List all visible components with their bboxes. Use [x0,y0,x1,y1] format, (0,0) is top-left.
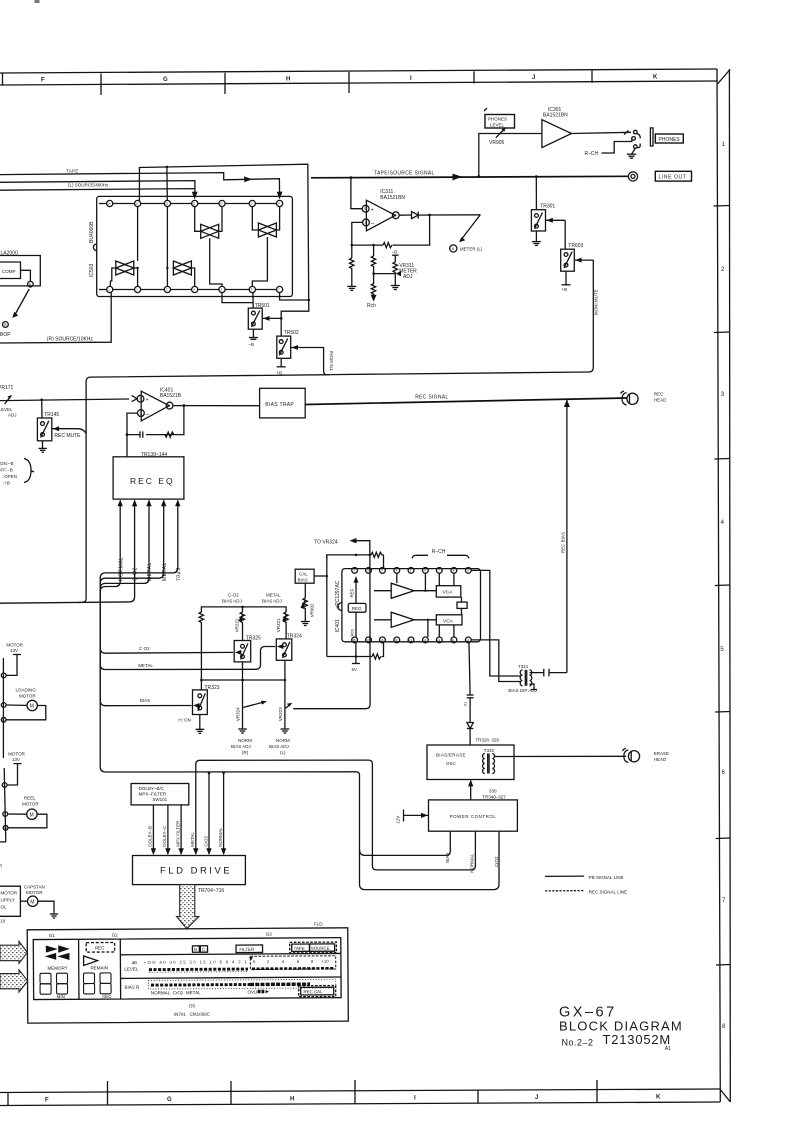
svg-text:CrO2: CrO2 [494,856,499,867]
svg-text:I: I [410,76,412,82]
svg-text:REC SIGNAL: REC SIGNAL [415,395,448,401]
transistor switch TR145 REC MUTE [37,412,86,441]
svg-text:TAPE: TAPE [66,168,79,173]
svg-text:T/S MONI: T/S MONI [329,351,334,371]
wire R-source to pin1 [0,293,111,344]
potentiometer VR323 [278,680,292,733]
arrows into REC EQ [118,500,181,507]
svg-text:8: 8 [311,959,314,964]
svg-text:10: 10 [2,718,6,722]
svg-text:VR902: VR902 [310,603,315,617]
svg-text:BIAS ADJ: BIAS ADJ [222,599,242,604]
transistor switch TR502 [277,330,328,375]
transistor switch TR603 [561,220,594,271]
svg-text:J: J [535,1095,538,1101]
svg-text:NORMAL: NORMAL [118,557,124,581]
bus BIAS return [360,831,451,863]
svg-text:T332: T332 [484,748,495,753]
svg-text:F: F [41,78,45,84]
dolby B C icons [192,946,207,952]
svg-text:N :OPEN: N :OPEN [0,474,17,479]
svg-text:OSC: OSC [446,761,457,766]
wire R-CH to jack [585,138,632,157]
svg-text:+B: +B [562,287,568,292]
svg-text:5: 5 [364,207,366,211]
svg-text:5: 5 [720,647,724,653]
svg-text:3: 3 [139,397,141,401]
memory FF REW icons [45,945,70,971]
IC503 top pins [99,200,283,206]
svg-text:VCA: VCA [443,590,454,596]
FLD DRIVE block [133,856,246,885]
label 330 TR340-327 [482,789,506,800]
svg-text:B: B [4,323,7,327]
svg-text:330: 330 [489,789,497,794]
label IC401 BA1521B [160,388,182,400]
svg-text:CAPSTAN: CAPSTAN [24,885,45,890]
supply 12V arrow [396,810,429,824]
svg-text:6: 6 [251,288,253,292]
svg-text:6: 6 [722,770,726,776]
svg-text:+: + [146,398,149,404]
op-amp U-IC301 [542,120,572,148]
svg-text:MOTOR: MOTOR [26,890,43,895]
FLD drive input DOLBY-B [148,805,156,855]
wire adj rail [201,606,286,612]
drawing frame: bottom coordinate band [0,1080,720,1106]
svg-text:OVU: OVU [247,990,257,995]
svg-text:4: 4 [193,288,195,292]
svg-text:T213052M: T213052M [603,1032,672,1047]
wire select C-O2 exits left [0,505,135,603]
bias trap box [173,388,305,418]
svg-text:REEL: REEL [24,796,36,801]
wire MONI MUTE loop [331,260,599,375]
phones jack contacts [632,128,653,149]
phones box [655,134,683,143]
svg-text:10: 10 [220,202,223,206]
svg-text:BIAS/ERASE: BIAS/ERASE [436,753,466,758]
loading motor [6,688,46,720]
BIAS/ERASE OSC block [427,745,514,780]
svg-text:BIAS ADJ: BIAS ADJ [231,744,251,749]
svg-text:J: J [532,75,535,81]
svg-text:C-O2: C-O2 [133,567,139,581]
svg-text:METAL: METAL [190,832,195,847]
svg-text:+10: +10 [321,959,329,964]
svg-text:LINE OUT: LINE OUT [659,175,687,181]
IC LA2000 comp block [0,251,40,288]
transistor switch TR324 [276,634,302,661]
rec signal line [305,395,626,405]
svg-text:11: 11 [193,202,196,206]
svg-text:BIAS DIP ADJ: BIAS DIP ADJ [508,688,536,693]
svg-text:VR905: VR905 [489,140,505,146]
svg-text:BIAS: BIAS [445,853,450,863]
labels on select lines [118,557,182,581]
rec cal indicator [299,985,336,996]
svg-text:4: 4 [282,959,285,964]
wire bottom bypass with resistor [327,643,384,659]
wire phones-level to op-amp [477,134,542,178]
svg-text:NORMAL: NORMAL [218,827,223,847]
wire OSC feed arrow [468,780,473,800]
svg-text:G1: G1 [49,933,56,938]
svg-text:7: 7 [3,674,5,678]
stippled input arrow lower [0,970,28,992]
diode at IC311 output [399,212,480,219]
phones level box [484,108,515,128]
svg-text:REG: REG [352,606,362,611]
svg-text:MOTOR: MOTOR [8,752,25,757]
svg-text:BIAS: BIAS [140,698,150,703]
svg-text:C: C [202,947,205,952]
wire trunk from moni line down to left exit [78,375,331,603]
level bar segments [149,956,336,972]
wire -input and feedback [351,215,430,258]
svg-text:BIAS: BIAS [298,577,308,582]
ground under TR323 [196,715,205,734]
svg-text:DOLBY–B: DOLBY–B [148,826,153,847]
label C-O2 BIAS ADJ [222,593,242,604]
svg-text:TR301: TR301 [540,203,555,209]
svg-text:MOTOR: MOTOR [1,891,18,896]
wire rail under switches [201,660,286,681]
wire IC pin9 to T321 [471,570,520,676]
svg-text:BA1521BN: BA1521BN [543,113,568,119]
svg-text:14: 14 [108,202,111,206]
svg-text:COMP: COMP [2,269,16,274]
svg-text:G: G [163,77,168,83]
supply +B under TR603 [562,271,571,292]
svg-text:2: 2 [721,267,725,273]
legend PB signal line [545,875,624,880]
tape source indicator [290,942,337,953]
svg-text:OL: OL [1,905,8,910]
svg-text:G5: G5 [189,1003,196,1008]
svg-text:1: 1 [108,288,110,292]
potentiometer VR322 [235,612,245,641]
svg-text::REC SIGNAL LINE: :REC SIGNAL LINE [588,890,628,895]
svg-text:POWER CONTROL: POWER CONTROL [450,814,497,819]
labels G1 G2 G3 [49,932,273,938]
label R-CH bracket [412,549,469,559]
svg-text:H: H [286,76,290,82]
potentiometer VR902 [300,583,314,625]
supply 5V [352,643,360,672]
transformer T321 [508,664,567,693]
svg-text:BA1521B: BA1521B [160,393,182,399]
svg-text:TAPE/SOURCE SIGNAL: TAPE/SOURCE SIGNAL [374,171,435,177]
svg-text:TR603: TR603 [568,243,583,249]
machine edge pins upper [1,658,6,758]
FLD drive input DOLBY-C [162,805,170,855]
svg-text:01: 01 [464,702,468,706]
svg-text:2: 2 [140,412,142,416]
svg-text:K: K [656,1095,661,1101]
IC503 BU4066B body [93,196,292,296]
transmission gate Q-A [195,207,222,287]
svg-text:–B: –B [392,250,398,255]
svg-text:BA1521BN: BA1521BN [380,195,405,201]
svg-text:6: 6 [29,283,31,287]
svg-text:VR322: VR322 [235,618,240,632]
drawing frame: top coordinate band [0,69,717,95]
wire to TR145 [40,399,43,419]
IC503 bottom pins [99,286,283,292]
transmission gate Q-B [252,207,279,287]
drawing frame: row dividers and numbers [714,142,731,1030]
svg-text:CAL: CAL [299,571,308,576]
wire TAPE line into pin7 [0,173,283,200]
svg-text:SOURCE: SOURCE [311,946,330,951]
svg-text:9: 9 [251,202,253,206]
label IC311 BA1521BN [380,189,405,201]
wire IC pin10 to T321 [471,640,520,682]
transmission gate Q-C [110,207,139,287]
svg-text:–B: –B [249,342,255,347]
SEC seven-seg digits [83,973,112,999]
svg-text:0: 0 [253,959,256,964]
FLD drive input CrO2 [203,773,211,855]
IC401 interior upper channel [374,573,461,598]
svg-text:METER (L): METER (L) [460,247,483,252]
label IC503 BU4066B [89,221,95,277]
svg-text:Vcc: Vcc [350,628,355,636]
svg-text:VR324: VR324 [236,707,241,721]
IC401 interior lower channel [374,597,467,637]
svg-text:TAPE: TAPE [294,946,305,951]
bus CrO2 return [208,772,500,890]
svg-text:PHONES: PHONES [488,117,507,122]
svg-text:NORM: NORM [238,738,252,743]
display panel inner box [33,938,341,1000]
svg-text:MONI.MUTE: MONI.MUTE [594,289,599,315]
label METAL BIAS ADJ [262,593,282,604]
svg-text:METAL: METAL [138,663,153,668]
wire select METAL2 to TR324 [100,505,275,670]
capacitor and diode chain to OSC [464,643,474,745]
node B (BOP) [0,289,29,338]
svg-text:12: 12 [165,202,168,206]
svg-text:.10: .10 [0,919,6,924]
svg-text:7: 7 [722,898,726,904]
switch block SW101 [131,784,189,805]
resistor to ground (IC311 -in) [347,258,356,290]
wire OSC to erase head [495,755,627,757]
label IC301 BA1521BN [543,107,568,119]
svg-text:6: 6 [297,959,300,964]
wire REC BIAS riser [561,399,570,673]
svg-text:7: 7 [278,288,280,292]
IC401 top pin row [352,568,471,574]
bias bar segments [124,979,335,990]
svg-text:T321: T321 [518,664,529,669]
svg-text:IN701 CM1068C: IN701 CM1068C [174,1012,211,1017]
svg-text:F: F [45,1098,49,1104]
FLD drive input NORMAL [218,773,226,855]
rec head [621,391,668,405]
ground at phones jack [627,148,636,158]
svg-text:MIN: MIN [57,994,65,999]
svg-text:A1: A1 [665,1046,671,1052]
svg-text:TR145: TR145 [44,412,59,418]
IC401 interior REF REG Vcc [348,576,366,637]
svg-text:H: H [290,1096,294,1102]
level scale numbers [124,957,329,972]
svg-text:SW101: SW101 [152,797,167,802]
svg-text:Rch: Rch [367,303,376,309]
op-amp U-IC311 [362,200,399,231]
svg-text:3: 3 [166,288,168,292]
resistor on select col [199,612,203,681]
svg-text:4: 4 [721,520,725,526]
svg-text:MOTOR: MOTOR [6,643,23,648]
line out connector [628,172,637,181]
svg-text:CrO2: CrO2 [203,836,208,847]
svg-text:REMAIN: REMAIN [90,965,108,970]
svg-text:R: R [0,864,3,869]
big stippled arrow to display [177,885,199,929]
svg-text:(R): (R) [242,750,249,755]
svg-text:REC MUTE: REC MUTE [54,433,81,439]
junction to TR301 [535,175,538,178]
REC EQ block [113,457,184,499]
erase head [622,748,669,762]
svg-text:(L) SOURCE/400Hz: (L) SOURCE/400Hz [68,182,109,187]
resistor chain to Rch [367,245,395,309]
svg-text:N :+B: N :+B [0,481,10,486]
svg-text:NORM: NORM [276,738,290,743]
svg-text:HEAD: HEAD [654,757,667,762]
wire L-source line into pin4 [0,181,198,200]
svg-text:·DOLBY–B/C: ·DOLBY–B/C [137,786,165,791]
ground under TR145 [39,441,47,452]
display panel outer box [27,928,348,1023]
svg-text:REC BIAS: REC BIAS [561,532,566,553]
svg-text:8: 8 [278,202,280,206]
drawing frame: corner diagonals [718,70,731,1102]
machine edge pins lower [0,768,8,842]
FLD drive input METAL [190,764,198,855]
potentiometer VR321 [276,612,288,639]
svg-text:FLD.: FLD. [314,922,324,927]
svg-text:µPC1297AC: µPC1297AC [335,580,341,608]
svg-text:G: G [167,1097,172,1103]
svg-text:REC CAL: REC CAL [303,989,323,994]
svg-text:TO VR324: TO VR324 [314,539,338,545]
svg-text:HEAD: HEAD [654,397,667,402]
svg-text:3: 3 [721,392,725,398]
wire top bypass with resistor [327,552,384,568]
label bracket ON OFF states [0,459,34,486]
svg-text:G3: G3 [266,932,273,937]
reel motor [8,796,47,828]
legend REC signal line [545,890,627,895]
svg-text:VCA: VCA [443,618,454,624]
svg-text:B: B [194,947,197,952]
svg-text:TR340–327: TR340–327 [482,795,506,800]
svg-text:MOTOR: MOTOR [19,693,36,698]
svg-text:8: 8 [722,1024,726,1030]
svg-text:7: 7 [395,214,397,218]
IC401 bottom pin row [352,637,471,643]
wire select METAL to TR325 [100,505,233,653]
capstan motor [20,885,58,919]
svg-text:13: 13 [135,202,138,206]
svg-text:METAL: METAL [162,562,168,581]
supply MOTOR 13V lower [7,752,26,786]
supply +B under TR502 [277,358,286,375]
wire pin7b junction [280,293,310,302]
potentiometer VR171 on rec line [0,395,129,404]
wire cal bias node [314,555,328,657]
svg-text:BIAS R: BIAS R [124,985,140,990]
svg-text:ERASE: ERASE [654,751,669,756]
svg-text:FILTER: FILTER [239,947,254,952]
svg-text:·MPX–FILTER: ·MPX–FILTER [137,792,167,797]
svg-text:REC EQ: REC EQ [130,476,175,486]
svg-text:VR321: VR321 [276,618,281,632]
filter indicator [236,945,263,953]
svg-text:LEVEL: LEVEL [124,967,139,972]
svg-text:REF: REF [350,588,355,597]
MIN seven-seg digits [40,973,68,999]
transistor switch TR501 [248,303,282,329]
wire net pins2-3 to monitor loop [139,164,308,336]
bus NORMAL return [196,760,476,873]
transistor switch TR323 [178,680,219,722]
svg-text:METAL: METAL [266,593,281,598]
svg-text:FLD DRIVE: FLD DRIVE [160,866,232,877]
svg-text:M: M [30,812,34,818]
svg-text:MEMORY: MEMORY [47,966,67,971]
svg-text:PHONES: PHONES [659,137,681,143]
svg-text:TR502: TR502 [284,330,299,336]
tape type captions [151,989,269,995]
svg-text:BIAS ADJ: BIAS ADJ [269,744,289,749]
svg-text:H: ON: H: ON [178,717,191,722]
svg-text:BU4066B: BU4066B [89,221,95,243]
svg-text:R–CH: R–CH [432,549,446,555]
scan speck top-left [35,0,40,3]
svg-text:MOTOR: MOTOR [22,801,39,806]
svg-text:13V: 13V [12,757,20,762]
svg-text:dB: dB [132,960,137,965]
svg-text:M: M [30,704,34,710]
svg-text:+: + [371,208,374,214]
svg-text:REC: REC [654,392,664,397]
REC indicator box [86,942,114,952]
wire select NORMAL to power bus [100,505,356,772]
svg-text:MPX FILTER: MPX FILTER [175,820,180,847]
svg-text:5V: 5V [352,667,358,672]
transmission gate Q-D [166,207,195,287]
IC401 uPC1297AC block [335,569,481,642]
transistor switch TR325 [234,635,261,662]
wire source line to +input [350,176,363,208]
svg-text:DOLBY–C: DOLBY–C [162,825,167,847]
svg-text:C·O2: C·O2 [139,646,150,651]
svg-text:LEVEL: LEVEL [490,122,505,127]
cal bias box [295,569,314,583]
label NORM BIAS ADJ (L) [269,738,290,755]
motor supply vol block [0,886,20,923]
svg-text:(L): (L) [280,750,286,755]
svg-text:6: 6 [365,221,367,225]
stippled input arrow upper [0,941,27,963]
potentiometer VR324 [236,680,268,733]
